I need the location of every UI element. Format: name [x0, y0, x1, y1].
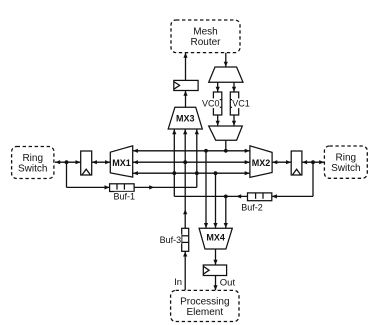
mux MX2: [250, 146, 272, 178]
FIFO Buf-1: [110, 184, 135, 192]
label Buf-2: [239, 202, 266, 212]
FIFO VC1: [230, 92, 238, 115]
register (flip-flop) between MX4 and Processing Element: [203, 265, 226, 276]
wire: left register to MX1 (bidirectional): [92, 160, 111, 164]
svg-text:Switch: Switch: [18, 163, 47, 174]
wire: demux to VC0 FIFO: [216, 82, 220, 92]
svg-text:Processing: Processing: [180, 296, 229, 307]
wire: MX3 output to register: [183, 91, 187, 108]
processing element box: [171, 290, 239, 321]
register (flip-flop) east, between MX2 and Ring Switch: [291, 151, 302, 175]
svg-text:Router: Router: [190, 37, 221, 48]
demux (mesh input demultiplexer): [209, 67, 243, 82]
wire: right tap down and into Buf-2: [272, 162, 313, 198]
wire: VC1 FIFO to VC mux: [232, 115, 236, 126]
label Buf-3: [159, 234, 181, 245]
wire: left tap down and into Buf-1: [67, 162, 110, 189]
svg-text:VC0: VC0: [202, 99, 220, 109]
svg-text:Mesh: Mesh: [193, 27, 217, 38]
wire: bus line 3 (MX1 - MX2): [133, 171, 250, 175]
wire: vertical mesh branch down to MX4 input 1: [204, 151, 208, 228]
wire: right register to right Ring Switch (bidirectional): [302, 160, 325, 164]
wire: bus line 1 (MX1 - MX2): [133, 149, 250, 153]
svg-text:Buf-3: Buf-3: [160, 235, 182, 245]
FIFO VC0: [213, 92, 221, 115]
svg-text:Switch: Switch: [331, 163, 360, 174]
mux MX3: [168, 107, 202, 129]
svg-text:Ring: Ring: [336, 153, 357, 164]
label Buf-1: [114, 192, 136, 202]
label VC1: [232, 98, 250, 108]
wire: bus line 2 (MX1 - MX2): [133, 160, 250, 164]
wire: Mesh Router down to demux: [224, 53, 228, 67]
node: junction MX4 branch on Buf-2 line: [224, 195, 228, 199]
wire: left Ring Switch to left register (bidirectional): [55, 160, 81, 164]
wire: MX4 output to register: [213, 249, 217, 265]
register (flip-flop) between MX3 and Mesh Router: [174, 80, 198, 90]
wire: Buf-1 output to Buf-1 column corner: [134, 185, 197, 189]
wire: register to Processing Element (Out): [213, 276, 217, 291]
wire: vertical Buf-2 branch down to MX4 input 3: [224, 196, 228, 228]
arrow: mid-line up arrow on PE column: [183, 209, 187, 214]
svg-text:Element: Element: [186, 307, 223, 318]
svg-text:MX2: MX2: [252, 158, 271, 168]
svg-text:Out: Out: [220, 277, 236, 288]
FIFO Buf-2: [248, 193, 272, 201]
svg-text:Buf-2: Buf-2: [241, 203, 263, 213]
wire: vertical bus3 branch down to MX4 input 2: [213, 173, 217, 228]
svg-text:In: In: [174, 277, 182, 288]
node: junction PE column on bus line 2: [183, 160, 187, 164]
ring switch box (east): [324, 146, 367, 178]
svg-text:MX3: MX3: [176, 113, 195, 123]
wire: demux to VC1 FIFO: [232, 82, 236, 92]
mux MX4: [199, 228, 232, 249]
node: junction VC-mux output on bus line 1: [224, 149, 228, 153]
node: junction Buf-1 column on bus line 3: [195, 171, 199, 175]
wire: vertical Buf-1 column up to MX3 input 3: [195, 129, 199, 187]
mux MX1: [110, 146, 132, 177]
wire: VC mux output down to bus line 1: [225, 140, 227, 151]
mesh router box: [171, 20, 240, 53]
wire: Buf-2 output left to Buf-2 column corner: [174, 194, 247, 198]
ring switch box (west): [12, 147, 54, 179]
wire: Processing Element In up to Buf-3: [183, 251, 187, 290]
node: junction right ring tap: [311, 160, 315, 164]
label VC0: [202, 98, 220, 108]
svg-text:MX1: MX1: [112, 158, 131, 168]
FIFO Buf-3: [182, 228, 189, 251]
node: junction mesh branch to MX4 on bus line 1: [204, 149, 208, 153]
svg-text:Buf-1: Buf-1: [114, 192, 136, 202]
label In: [174, 277, 182, 288]
wire: MX2 to right register (bidirectional): [272, 160, 291, 164]
wire: register to Mesh Router (up arrow at x=185.5): [183, 53, 187, 81]
wire: VC0 FIFO to VC mux: [216, 115, 220, 126]
register (flip-flop) west, between Ring Switch and MX1: [81, 151, 92, 175]
wire: vertical Buf-2 column up to MX3 input 1: [172, 129, 176, 196]
svg-text:VC1: VC1: [232, 99, 250, 109]
node: junction Buf-2 column on bus line 3: [172, 171, 176, 175]
svg-text:MX4: MX4: [206, 232, 225, 242]
mux (virtual-channel mux): [209, 126, 243, 140]
node: junction MX4 branch on bus line 3: [214, 171, 218, 175]
node: junction left ring tap: [65, 160, 69, 164]
wire: vertical PE column up to MX3 input 2: [183, 129, 187, 228]
label Out: [220, 277, 236, 288]
svg-text:Ring: Ring: [22, 153, 43, 164]
